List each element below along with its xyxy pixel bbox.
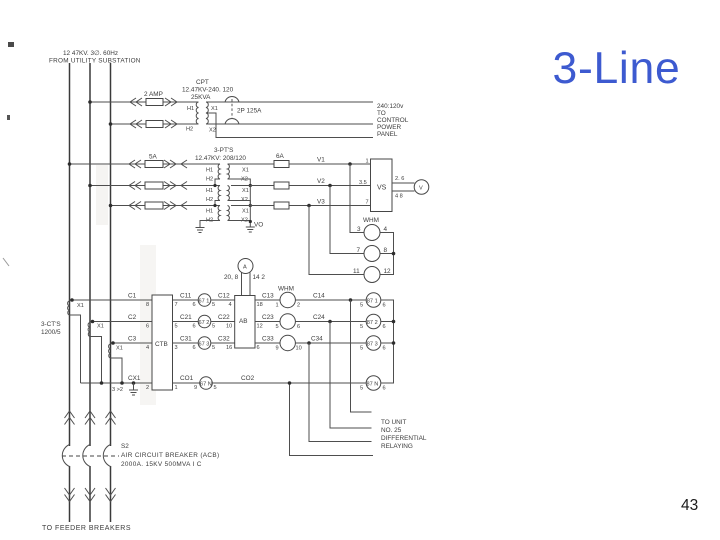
svg-text:A: A (243, 265, 247, 271)
label PT3 X1 X2 (241, 209, 249, 224)
wire V2 down to WHM pot coil 2 (330, 186, 364, 254)
scan speck 1 (8, 42, 14, 47)
breaker S2 arc pole C (103, 445, 110, 467)
wire PT2 X2 common (228, 201, 252, 208)
pin 5 relay1 (212, 302, 215, 308)
svg-text:C2: C2 (128, 314, 137, 321)
relay 87-2 (366, 314, 381, 329)
fuse F6 6A (274, 161, 289, 168)
pin 5 873 (360, 346, 363, 352)
svg-text:2 AMP: 2 AMP (144, 91, 163, 98)
transformer PT3 primary winding (218, 206, 220, 221)
wire PT phase 2 from bus B (90, 185, 220, 187)
drawout chevrons fuse F2 left (130, 120, 142, 128)
label C23 (262, 314, 274, 321)
transformer PT1 primary winding (218, 164, 220, 179)
node CT3 top (111, 341, 115, 345)
label C13 (262, 293, 274, 300)
drawout chevrons fuse F3 (129, 160, 187, 168)
svg-text:12.47KV: 208/120: 12.47KV: 208/120 (195, 155, 246, 162)
svg-text:C21: C21 (180, 314, 192, 321)
svg-text:5: 5 (276, 324, 279, 330)
scan speck 3 (3, 258, 9, 266)
svg-text:1: 1 (175, 385, 178, 391)
svg-text:87 1: 87 1 (367, 298, 378, 304)
svg-text:18: 18 (257, 302, 263, 308)
pin 2 CTB (146, 385, 149, 391)
pin 6 relay1 (193, 302, 196, 308)
pin 6 872 (383, 324, 386, 330)
svg-text:H1: H1 (206, 168, 213, 174)
label C31 (180, 336, 192, 343)
node tap bus B PT (88, 184, 92, 188)
svg-text:67 1: 67 1 (199, 298, 210, 304)
svg-text:3: 3 (357, 226, 361, 233)
pin 5 872 (360, 324, 363, 330)
svg-text:9: 9 (276, 346, 279, 352)
label 14 2 (253, 274, 266, 281)
ground CT common (129, 383, 138, 395)
transformer PT2 primary winding (218, 186, 220, 201)
wire C34 WHM3 to relay 87-3 (295, 342, 366, 344)
svg-text:6: 6 (297, 324, 300, 330)
svg-text:240:120v: 240:120v (377, 103, 404, 110)
label C33 (262, 336, 274, 343)
svg-text:7: 7 (357, 247, 361, 254)
label PT2 X1 X2 (241, 188, 249, 203)
label C11 (180, 293, 192, 300)
label C24 (313, 314, 325, 321)
wire CPT primary H2 from bus C (111, 123, 199, 125)
label V2 (317, 178, 325, 185)
label V1 (317, 157, 325, 164)
drawout chevrons lower bus B (85, 488, 95, 502)
svg-text:V1: V1 (317, 157, 325, 164)
wire PT phase 3 from bus C (111, 205, 221, 207)
svg-text:1: 1 (366, 159, 369, 165)
page number 43 (681, 497, 698, 514)
wire CO1 CTB to relay 67-N (173, 382, 200, 384)
pin 2 whm1 (297, 303, 300, 309)
pin 12 AB (257, 324, 263, 330)
drawout chevrons fuse F1 left (130, 98, 142, 106)
label V3 (317, 199, 325, 206)
svg-text:5: 5 (212, 302, 215, 308)
svg-text:C14: C14 (313, 293, 325, 300)
wire CT1 return (70, 315, 81, 383)
scan speck 2 (7, 115, 10, 120)
drawout chevrons fuse F1 right (165, 98, 177, 106)
svg-text:6: 6 (383, 346, 386, 352)
ground PT secondary VO (246, 227, 255, 232)
svg-text:DIFFERENTIAL: DIFFERENTIAL (381, 435, 427, 442)
node CT1 top (70, 298, 74, 302)
node junction C34 diff (307, 341, 311, 345)
svg-text:C12: C12 (218, 293, 230, 300)
wire C33 AB to WHM current 3 (255, 342, 280, 344)
svg-text:5: 5 (360, 346, 363, 352)
svg-text:6: 6 (383, 303, 386, 309)
svg-text:6: 6 (257, 345, 260, 351)
voltmeter switch VS box (371, 159, 393, 212)
svg-text:5: 5 (212, 345, 215, 351)
node junction pot return (392, 252, 396, 256)
label to unit 25 differential relaying (381, 419, 427, 450)
node CT2 return junction (100, 381, 104, 385)
svg-text:TO UNIT: TO UNIT (381, 419, 407, 426)
pin 10 whm3 (296, 346, 302, 352)
wire differential lead N (290, 383, 374, 456)
node VO (249, 220, 264, 229)
svg-text:2P 125A: 2P 125A (237, 108, 262, 115)
pin 6 871 (383, 303, 386, 309)
wire C21 CTB to relay 67-2 (173, 321, 199, 323)
label CO1 (180, 375, 194, 382)
svg-text:3-PT'S: 3-PT'S (214, 147, 233, 154)
relay 87-N (366, 376, 381, 391)
breaker S2 arc pole A (62, 445, 69, 467)
pin 2,6 VS (395, 176, 404, 182)
ground PT primary (196, 228, 205, 233)
label C2 (128, 314, 137, 321)
pin 7 (357, 247, 361, 254)
svg-text:S2: S2 (121, 443, 129, 450)
label CT2 X1 (97, 324, 104, 330)
bus phase B vertical line (89, 63, 91, 522)
node junction 87-2 return (392, 320, 396, 324)
drawout chevrons lower bus A (65, 488, 75, 502)
wire CPT primary H1 from bus B (90, 101, 199, 103)
slide title (553, 44, 681, 93)
fuse F3 5A (145, 161, 163, 168)
svg-text:X1: X1 (242, 168, 249, 174)
pin 1 whm1 (276, 303, 279, 309)
wire CPT secondary X2 to control panel (206, 123, 373, 125)
drawout chevrons fuse F2 right (165, 120, 177, 128)
svg-text:16: 16 (226, 345, 232, 351)
svg-text:C24: C24 (313, 314, 325, 321)
label C1 (128, 293, 137, 300)
svg-text:POWER: POWER (377, 124, 402, 131)
wire differential lead 2 (330, 322, 372, 429)
wire CT2 return (90, 337, 102, 384)
pin 8 CTB (146, 302, 149, 308)
label 20,8 (224, 274, 239, 281)
label C34 (311, 336, 323, 343)
svg-text:C34: C34 (311, 336, 323, 343)
relay 67-3 (198, 337, 211, 350)
CT1 coil on bus A (68, 301, 70, 315)
svg-text:X1: X1 (97, 324, 104, 330)
node tap bus A PT (68, 162, 72, 166)
svg-text:3 >2: 3 >2 (112, 387, 123, 393)
wire CPT neutral to control panel (206, 113, 373, 138)
label CO2 (241, 375, 255, 382)
label 2 AMP (144, 91, 163, 98)
svg-text:H1: H1 (187, 106, 194, 112)
wire differential lead 3 (309, 343, 372, 442)
svg-text:6: 6 (383, 386, 386, 392)
svg-text:X1: X1 (211, 106, 218, 112)
node junction 87-3 return (392, 341, 396, 345)
svg-text:RELAYING: RELAYING (381, 443, 413, 450)
svg-text:AIR CIRCUIT BREAKER (ACB): AIR CIRCUIT BREAKER (ACB) (121, 452, 219, 459)
svg-text:87 2: 87 2 (367, 320, 378, 326)
wire WHM pot coil returns (380, 233, 394, 275)
svg-text:9: 9 (194, 385, 197, 391)
wire PT1 H2 to phase2 (213, 179, 220, 187)
label CPT rating (182, 79, 234, 101)
label H1 H2 (186, 106, 194, 133)
svg-text:C31: C31 (180, 336, 192, 343)
svg-text:4 8: 4 8 (395, 194, 403, 200)
breaker 2P 125A pole 1 arc (225, 96, 239, 102)
drawout chevrons upper bus A (65, 411, 75, 425)
wire V1 down to WHM pot coil 1 (350, 164, 364, 233)
wire PT3 H2 to ground (200, 221, 220, 228)
label PT1 H1 H2 (206, 168, 213, 183)
svg-text:1: 1 (276, 303, 279, 309)
label C3 (128, 336, 137, 343)
svg-text:6: 6 (193, 345, 196, 351)
svg-text:12.47KV-240. 120: 12.47KV-240. 120 (182, 87, 234, 94)
wire C11 CTB to relay 67-1 (173, 299, 199, 301)
svg-text:H2: H2 (186, 127, 193, 133)
fuse F8 (274, 202, 289, 209)
svg-text:14 2: 14 2 (253, 274, 266, 281)
svg-text:V2: V2 (317, 178, 325, 185)
pin 5 relayN (214, 385, 217, 391)
svg-text:H2: H2 (206, 177, 213, 183)
svg-text:67 N: 67 N (200, 381, 212, 387)
pin 4 (384, 226, 388, 233)
svg-text:2. 6: 2. 6 (395, 176, 404, 182)
svg-text:5A: 5A (149, 154, 158, 161)
drawout chevrons upper bus C (106, 411, 116, 425)
svg-text:NO. 25: NO. 25 (381, 427, 402, 434)
bus phase A vertical line (69, 63, 71, 522)
wire PT phase 1 from bus A (70, 163, 221, 165)
label C21 (180, 314, 192, 321)
pin 6 whm2 (297, 324, 300, 330)
pin 8 (384, 247, 388, 254)
drawout chevrons fuse F5 (129, 202, 187, 210)
label to feeder breakers (42, 525, 131, 532)
fuse F5 (145, 202, 163, 209)
label C12 (218, 293, 230, 300)
svg-text:X1: X1 (77, 303, 84, 309)
svg-text:6: 6 (383, 324, 386, 330)
wire C12 relay 67-1 to AB (211, 299, 235, 301)
pin 3 (357, 226, 361, 233)
wire C24 WHM2 to relay 87-2 (295, 321, 366, 323)
svg-text:H2: H2 (206, 197, 213, 203)
node junction V3 whm (307, 204, 311, 208)
pin 5 CTB (175, 324, 178, 330)
pin 4,8 VS (395, 194, 403, 200)
svg-text:C3: C3 (128, 336, 137, 343)
svg-text:4: 4 (229, 302, 232, 308)
label WHM voltage (363, 217, 379, 224)
transformer CPT primary winding (196, 102, 198, 124)
svg-text:CO2: CO2 (241, 375, 255, 382)
wire C2 from CT2 to CTB pin6 (90, 321, 152, 323)
svg-text:H1: H1 (206, 188, 213, 194)
scan smudge band 2 (96, 165, 108, 225)
wire 87 relay common return (381, 300, 394, 383)
node CT3 return junction (120, 381, 124, 385)
label 240:120v to control power panel (377, 103, 409, 138)
svg-text:3.5: 3.5 (359, 180, 367, 186)
wire V2 from PT2 to VS (231, 185, 371, 187)
svg-text:3: 3 (175, 345, 178, 351)
pin 16 AB (226, 345, 232, 351)
meter WHM potential coil 1 (364, 225, 380, 241)
breaker S2 dashed gang line (62, 455, 119, 457)
svg-text:FROM UTILITY SUBSTATION: FROM UTILITY SUBSTATION (49, 58, 141, 65)
svg-text:TO: TO (377, 110, 386, 117)
label PT3 H1 H2 (206, 209, 213, 224)
svg-text:5: 5 (360, 303, 363, 309)
relay 87-1 (366, 293, 381, 308)
node tap bus C CPT (109, 122, 113, 126)
pin 5 relay3 (212, 345, 215, 351)
wire C23 AB to WHM current 2 (255, 321, 280, 323)
label PT1 X1 X2 (241, 168, 249, 183)
wire PT1 X2 common (228, 179, 252, 187)
svg-text:11: 11 (353, 268, 360, 275)
wire C3 from CT3 to CTB pin4 (111, 342, 153, 344)
meter WHM potential coil 2 (364, 246, 380, 262)
svg-text:C33: C33 (262, 336, 274, 343)
pin 6 relay2 (193, 324, 196, 330)
node junction V2 whm (328, 184, 332, 188)
svg-text:5: 5 (212, 324, 215, 330)
svg-text:V3: V3 (317, 199, 325, 206)
CT2 coil on bus B (88, 323, 90, 337)
wire VS to voltmeter lower (392, 190, 415, 192)
svg-text:H1: H1 (206, 209, 213, 215)
wire C14 WHM1 to relay 87-1 (295, 299, 366, 301)
wire C22 relay 67-2 to AB (211, 321, 235, 323)
svg-text:X2: X2 (209, 128, 216, 134)
label S2 air circuit breaker (121, 443, 219, 468)
label 3 >2 (112, 387, 123, 393)
svg-text:CTB: CTB (155, 341, 168, 348)
pin 1 CTB (175, 385, 178, 391)
pin 4 AB (229, 302, 232, 308)
svg-text:TO FEEDER BREAKERS: TO FEEDER BREAKERS (42, 525, 131, 532)
node junction V1 whm (348, 162, 352, 166)
pin 7 VS (366, 200, 369, 206)
label: incoming source 12.47KV 3ph 60Hz (49, 50, 141, 65)
node junction C24 diff (328, 320, 332, 324)
pin 4 CTB (146, 345, 149, 351)
node tap bus C PT (109, 204, 113, 208)
wire V3 down to WHM pot coil 3 (309, 206, 364, 275)
drawout chevrons lower bus C (106, 488, 116, 502)
svg-text:87 3: 87 3 (367, 341, 378, 347)
pin 6 relay3 (193, 345, 196, 351)
svg-text:C1: C1 (128, 293, 137, 300)
breaker S2 arc pole B (83, 445, 90, 467)
pin 18 AB (257, 302, 263, 308)
node ground tap junction (132, 381, 136, 385)
pin 9 whm3 (276, 346, 279, 352)
svg-text:X1: X1 (242, 209, 249, 215)
svg-text:8: 8 (146, 302, 149, 308)
svg-text:VO: VO (254, 222, 263, 229)
svg-text:5: 5 (360, 324, 363, 330)
CT3 coil on bus C (109, 344, 111, 358)
svg-text:6: 6 (146, 324, 149, 330)
label C14 (313, 293, 325, 300)
pin 6 87N (383, 386, 386, 392)
pin 6 AB (257, 345, 260, 351)
label 2P 125A (237, 108, 262, 115)
breaker 2P 125A pole 2 arc (225, 118, 239, 124)
wire CX1 common return to CTB pin2 (81, 382, 153, 384)
label C22 (218, 314, 230, 321)
node CT2 top (91, 320, 95, 324)
wire V1 from PT1 to VS (228, 163, 371, 165)
relay 67-N (200, 377, 213, 390)
wire C31 CTB to relay 67-3 (173, 342, 199, 344)
relay 67-1 (198, 294, 211, 307)
fuse F2 (146, 121, 163, 128)
pin 3,5 VS (359, 180, 367, 186)
label CT3 X1 (116, 346, 123, 352)
scan smudge band 1 (140, 245, 156, 405)
wire V3 from PT3 to VS (231, 205, 371, 207)
drawout chevrons upper bus B (85, 411, 95, 425)
svg-text:AB: AB (239, 318, 248, 325)
ammeter A (238, 259, 253, 274)
transformer PT1 secondary winding (228, 164, 230, 179)
svg-text:3-Line: 3-Line (553, 44, 681, 93)
svg-text:12 47KV. 3∅. 60Hz: 12 47KV. 3∅. 60Hz (63, 50, 118, 57)
wire CT3 return (111, 358, 123, 383)
meter WHM current coil 1 (280, 292, 295, 307)
svg-text:2: 2 (297, 303, 300, 309)
svg-text:C23: C23 (262, 314, 274, 321)
svg-text:6: 6 (193, 302, 196, 308)
svg-text:10: 10 (296, 346, 302, 352)
meter WHM potential coil 3 (364, 267, 380, 283)
label 6A (276, 153, 285, 160)
drawout chevrons fuse F4 (129, 182, 187, 190)
svg-text:87 N: 87 N (367, 381, 379, 387)
svg-text:5: 5 (175, 324, 178, 330)
svg-text:4: 4 (384, 226, 388, 233)
pin 5 whm2 (276, 324, 279, 330)
ammeter switch AB box (235, 296, 255, 349)
pin 1 VS (366, 159, 369, 165)
wire CO2 relay 67-N to 87-N (212, 382, 366, 384)
svg-text:1200/5: 1200/5 (41, 329, 61, 336)
fuse F7 (274, 182, 289, 189)
node tap bus B CPT (88, 100, 92, 104)
svg-text:V: V (419, 186, 423, 192)
bus phase C vertical line (110, 63, 112, 522)
meter WHM current coil 2 (280, 314, 295, 329)
meter WHM current coil 3 (280, 335, 295, 350)
label 3-CTs 1200/5 (41, 321, 61, 336)
svg-text:7: 7 (366, 200, 369, 206)
svg-text:X1: X1 (242, 188, 249, 194)
wire VS to voltmeter upper (392, 182, 415, 184)
wire ammeter leads to AB switch (242, 272, 251, 295)
